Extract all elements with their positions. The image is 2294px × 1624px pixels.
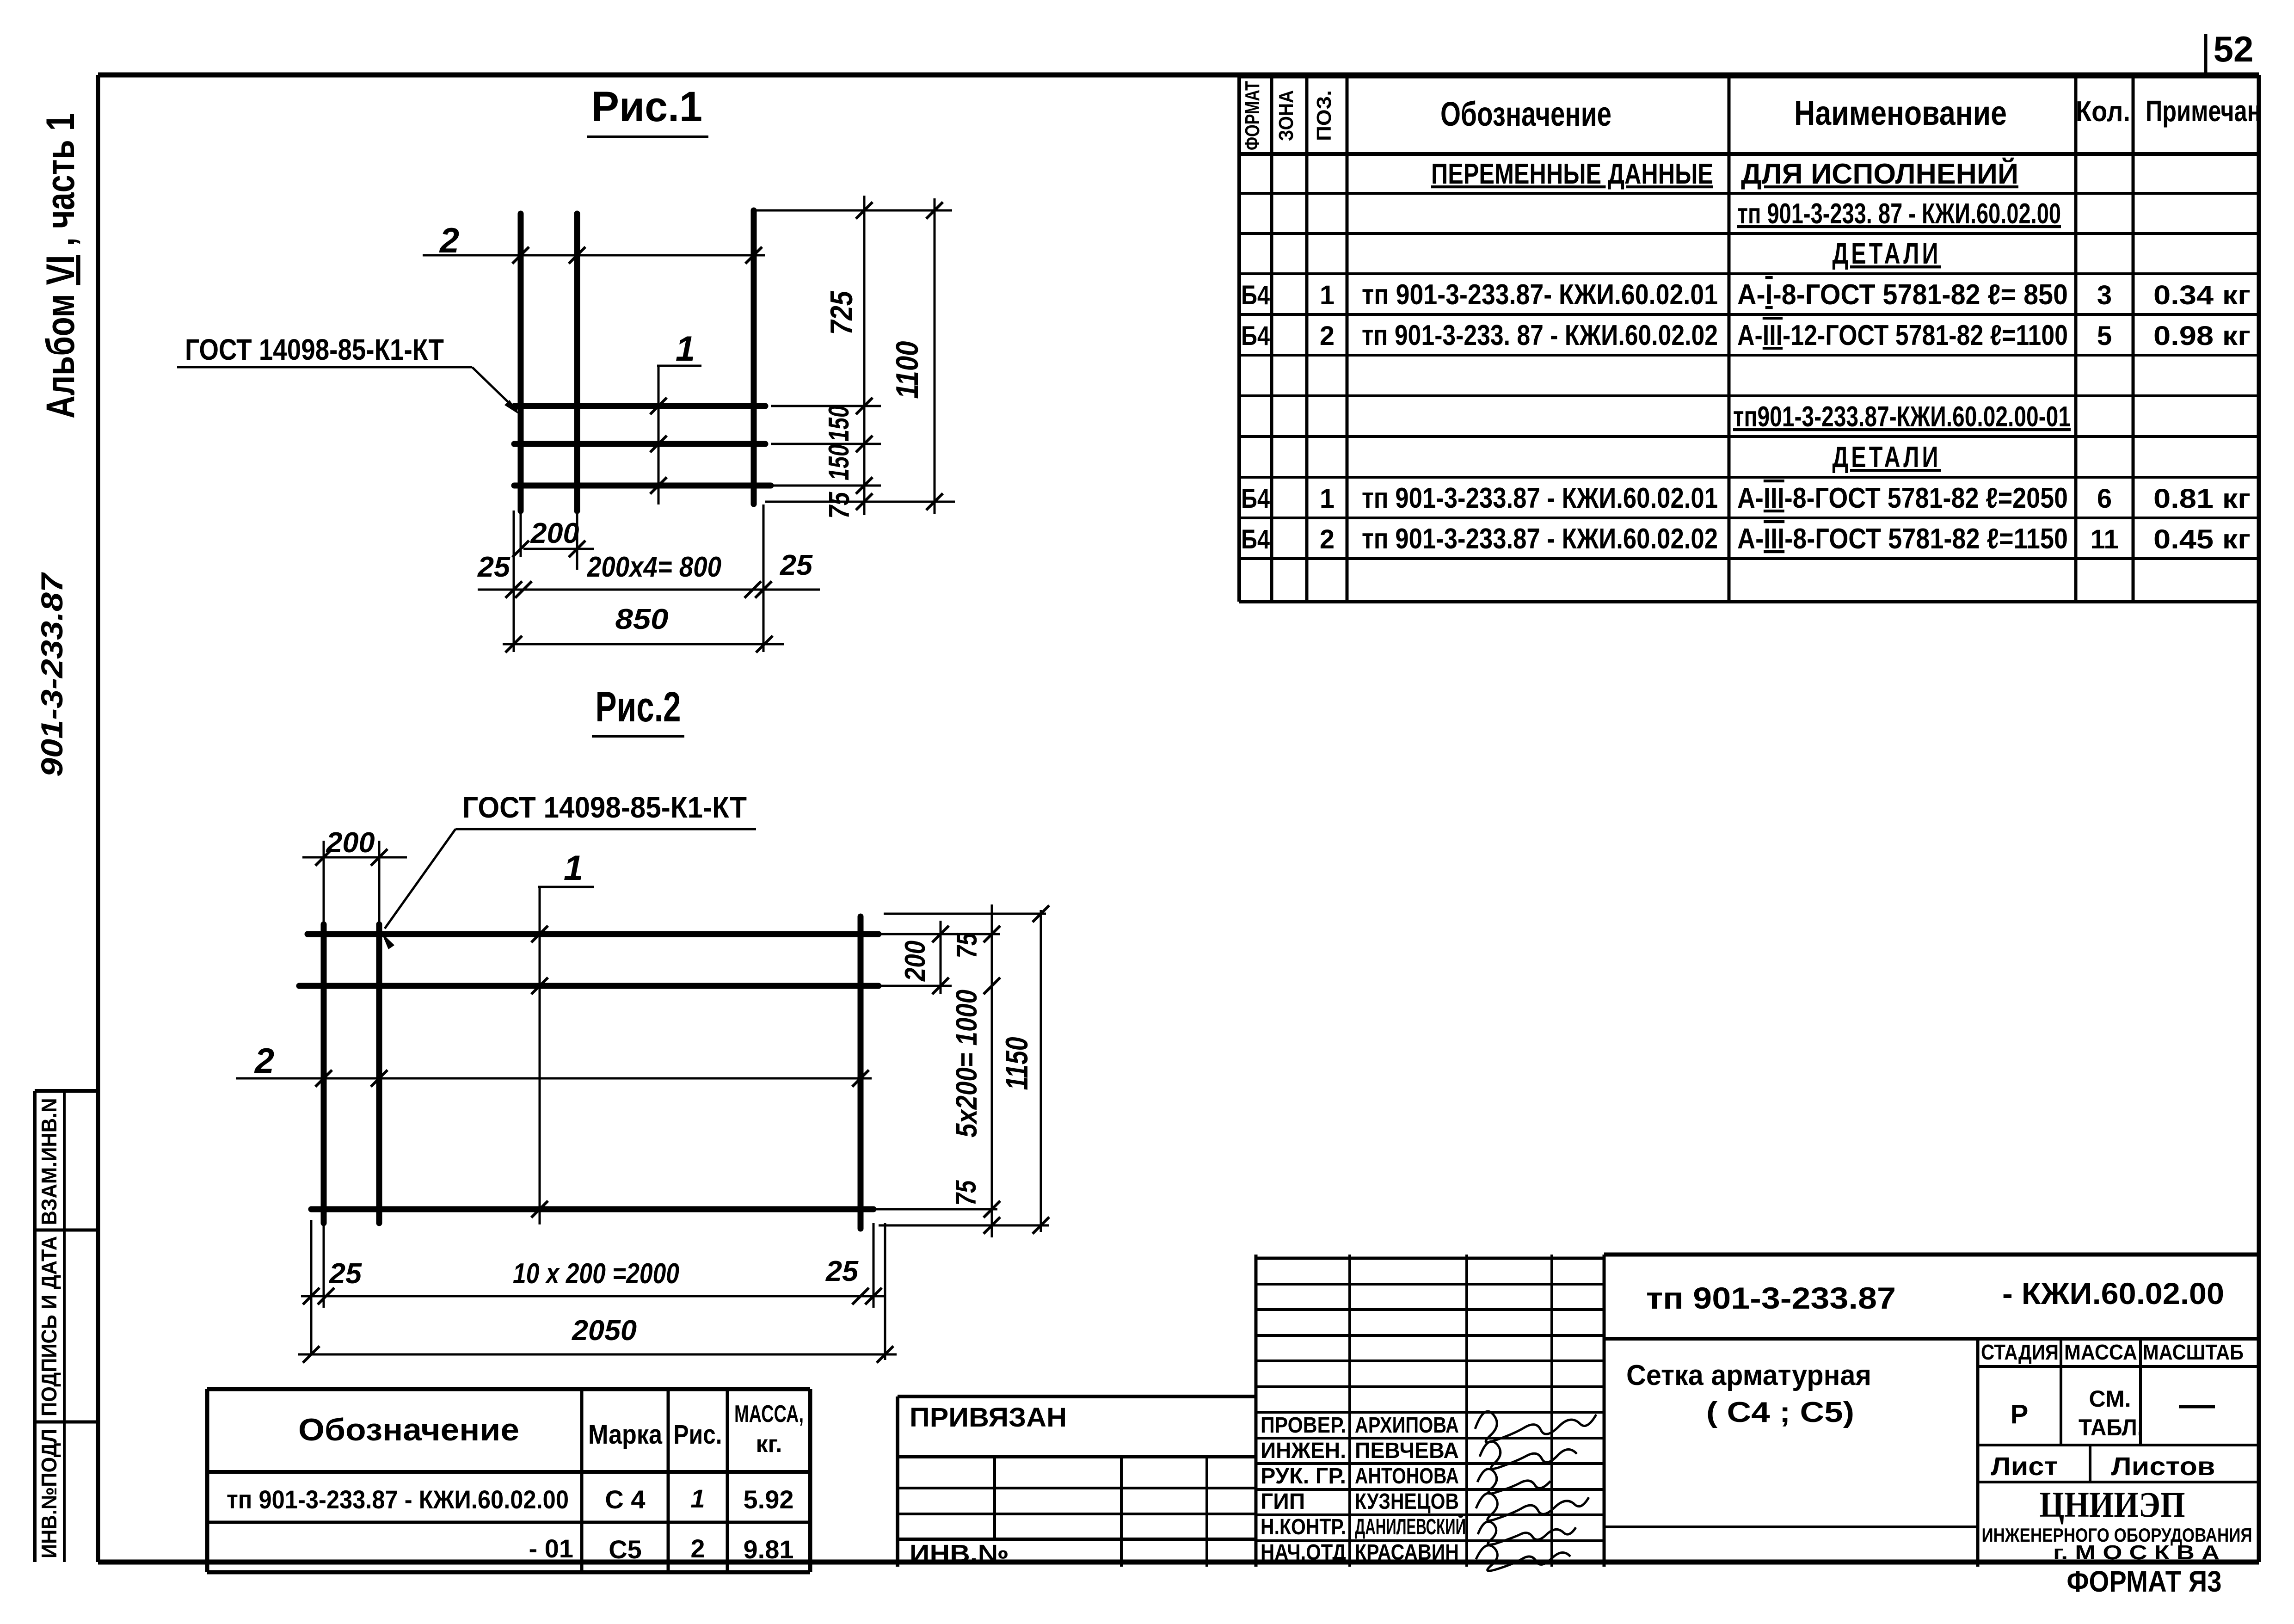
svg-text:Б4: Б4	[1241, 280, 1270, 310]
svg-text:С5: С5	[609, 1535, 642, 1564]
svg-text:- 01: - 01	[529, 1534, 574, 1563]
svg-text:200: 200	[530, 517, 579, 549]
svg-text:5.92: 5.92	[744, 1485, 794, 1514]
svg-text:25: 25	[780, 549, 813, 581]
svg-text:А-I-8-ГОСТ 5781-82 ℓ= 850: А-I-8-ГОСТ 5781-82 ℓ= 850	[1737, 279, 2068, 311]
svg-text:Рис.2: Рис.2	[596, 683, 681, 731]
svg-text:ИНВ.№: ИНВ.№	[910, 1540, 1009, 1568]
svg-text:ИНВ.№ПОДЛ: ИНВ.№ПОДЛ	[37, 1429, 61, 1558]
svg-text:АРХИПОВА: АРХИПОВА	[1355, 1413, 1459, 1438]
svg-text:тп 901-3-233.87: тп 901-3-233.87	[1646, 1281, 1896, 1315]
svg-text:Кол.: Кол.	[2076, 96, 2130, 128]
svg-text:Сетка арматурная: Сетка арматурная	[1626, 1359, 1871, 1391]
svg-text:9.81: 9.81	[744, 1535, 794, 1564]
svg-text:ЦНИИЭП: ЦНИИЭП	[2040, 1484, 2185, 1525]
svg-text:ПОЗ.: ПОЗ.	[1313, 90, 1335, 141]
svg-text:тп 901-3-233.87 - КЖИ.60.02.: тп 901-3-233.87 - КЖИ.60.02.00	[227, 1485, 569, 1514]
svg-text:тп 901-3-233. 87 - КЖИ.60.02.0: тп 901-3-233. 87 - КЖИ.60.02.02	[1362, 320, 1718, 351]
svg-text:75: 75	[824, 492, 855, 519]
svg-text:тп 901-3-233. 87 - КЖИ.60.02.0: тп 901-3-233. 87 - КЖИ.60.02.00	[1737, 198, 2061, 230]
svg-text:5: 5	[2097, 321, 2112, 351]
svg-text:ПРИВЯЗАН: ПРИВЯЗАН	[910, 1403, 1067, 1433]
svg-text:ДАНИЛЕВСКИЙ: ДАНИЛЕВСКИЙ	[1355, 1514, 1466, 1539]
svg-text:ПРОВЕР.: ПРОВЕР.	[1261, 1413, 1346, 1438]
svg-text:ФОРМАТ Я3: ФОРМАТ Я3	[2067, 1565, 2222, 1598]
svg-text:2: 2	[690, 1534, 705, 1563]
svg-text:Обозначение: Обозначение	[1440, 95, 1611, 133]
svg-text:А-III-12-ГОСТ 5781-82 ℓ=1100: А-III-12-ГОСТ 5781-82 ℓ=1100	[1737, 320, 2068, 351]
svg-text:1: 1	[1320, 484, 1335, 514]
svg-text:Листов: Листов	[2111, 1452, 2215, 1481]
svg-text:Рис.: Рис.	[674, 1420, 722, 1450]
svg-text:ПЕРЕМЕННЫЕ ДАННЫЕ: ПЕРЕМЕННЫЕ ДАННЫЕ	[1431, 158, 1713, 190]
svg-text:Обозначение: Обозначение	[298, 1412, 519, 1447]
svg-text:1: 1	[690, 1484, 705, 1513]
svg-text:Рис.1: Рис.1	[591, 83, 702, 130]
svg-text:ПОДПИСЬ И ДАТА: ПОДПИСЬ И ДАТА	[37, 1236, 61, 1416]
svg-text:6: 6	[2097, 484, 2112, 514]
svg-text:С 4: С 4	[605, 1485, 645, 1514]
svg-text:Наименование: Наименование	[1794, 94, 2007, 132]
svg-text:ТАБЛ.: ТАБЛ.	[2079, 1415, 2143, 1440]
svg-text:ФОРМАТ: ФОРМАТ	[1241, 81, 1264, 150]
svg-text:2: 2	[1320, 321, 1335, 351]
svg-text:200: 200	[899, 941, 931, 982]
svg-text:1150: 1150	[999, 1037, 1034, 1090]
svg-text:АНТОНОВА: АНТОНОВА	[1355, 1464, 1459, 1489]
svg-text:1100: 1100	[890, 341, 925, 399]
svg-text:Б4: Б4	[1241, 484, 1270, 514]
svg-text:Лист: Лист	[1991, 1452, 2058, 1481]
svg-text:тп 901-3-233.87- КЖИ.60.02.01: тп 901-3-233.87- КЖИ.60.02.01	[1362, 279, 1718, 311]
svg-text:1: 1	[676, 329, 695, 369]
svg-text:Б4: Б4	[1241, 524, 1270, 554]
svg-text:КУЗНЕЦОВ: КУЗНЕЦОВ	[1355, 1489, 1459, 1514]
svg-text:200: 200	[326, 827, 375, 859]
svg-text:Примечан: Примечан	[2146, 94, 2261, 128]
svg-text:МАССА,: МАССА,	[734, 1401, 804, 1427]
svg-text:2: 2	[1320, 524, 1335, 554]
svg-text:тп901-3-233.87-КЖИ.60.02.00-01: тп901-3-233.87-КЖИ.60.02.00-01	[1733, 401, 2071, 433]
svg-text:5x200= 1000: 5x200= 1000	[950, 990, 983, 1138]
svg-text:75: 75	[950, 1180, 982, 1206]
svg-text:10 x 200 =2000: 10 x 200 =2000	[513, 1258, 679, 1290]
svg-text:Р: Р	[2011, 1399, 2029, 1429]
svg-text:1: 1	[564, 849, 583, 888]
svg-text:ПЕВЧЕВА: ПЕВЧЕВА	[1355, 1439, 1459, 1463]
svg-text:11: 11	[2090, 524, 2118, 554]
svg-text:901-3-233.87: 901-3-233.87	[35, 572, 69, 777]
svg-text:0.34 кг: 0.34 кг	[2153, 280, 2251, 310]
svg-text:850: 850	[615, 603, 669, 635]
svg-text:МАССА: МАССА	[2064, 1340, 2137, 1364]
svg-text:ДЕТАЛИ: ДЕТАЛИ	[1833, 440, 1941, 474]
svg-text:ГОСТ 14098-85-К1-КТ: ГОСТ 14098-85-К1-КТ	[185, 333, 444, 366]
svg-text:25: 25	[329, 1258, 363, 1290]
svg-text:А-III-8-ГОСТ 5781-82 ℓ=2050: А-III-8-ГОСТ 5781-82 ℓ=2050	[1737, 482, 2068, 514]
svg-text:Н.КОНТР.: Н.КОНТР.	[1261, 1515, 1346, 1539]
svg-text:0.45 кг: 0.45 кг	[2153, 524, 2251, 554]
svg-text:тп 901-3-233.87 - КЖИ.60.02.01: тп 901-3-233.87 - КЖИ.60.02.01	[1362, 482, 1718, 514]
svg-text:А-III-8-ГОСТ 5781-82 ℓ=1150: А-III-8-ГОСТ 5781-82 ℓ=1150	[1737, 523, 2068, 555]
svg-text:РУК. ГР.: РУК. ГР.	[1261, 1464, 1346, 1489]
svg-text:52: 52	[2214, 29, 2254, 69]
svg-text:кг.: кг.	[756, 1431, 782, 1458]
svg-text:1: 1	[1320, 280, 1335, 310]
svg-text:( С4 ; С5): ( С4 ; С5)	[1706, 1396, 1854, 1428]
svg-text:ЗОНА: ЗОНА	[1275, 90, 1298, 141]
svg-text:ДЕТАЛИ: ДЕТАЛИ	[1833, 237, 1941, 270]
svg-text:150: 150	[823, 444, 855, 480]
svg-text:ГИП: ГИП	[1261, 1489, 1305, 1514]
svg-text:725: 725	[824, 291, 859, 335]
svg-text:ГОСТ 14098-85-К1-КТ: ГОСТ 14098-85-К1-КТ	[462, 791, 747, 824]
svg-text:Б4: Б4	[1241, 321, 1270, 351]
svg-text:СМ.: СМ.	[2089, 1386, 2131, 1412]
svg-text:75: 75	[951, 932, 983, 958]
svg-text:МАСШТАБ: МАСШТАБ	[2143, 1340, 2244, 1364]
svg-text:тп 901-3-233.87 - КЖИ.60.02.02: тп 901-3-233.87 - КЖИ.60.02.02	[1362, 523, 1718, 555]
svg-text:КРАСАВИН: КРАСАВИН	[1355, 1540, 1459, 1565]
svg-text:2050: 2050	[572, 1315, 637, 1347]
svg-text:25: 25	[477, 551, 511, 583]
svg-text:ВЗАМ.ИНВ.N: ВЗАМ.ИНВ.N	[37, 1098, 61, 1225]
svg-text:2: 2	[254, 1041, 274, 1081]
svg-text:25: 25	[825, 1255, 859, 1287]
svg-text:НАЧ.ОТД: НАЧ.ОТД	[1261, 1540, 1346, 1565]
svg-text:г. М О С К В А: г. М О С К В А	[2053, 1541, 2220, 1564]
svg-text:3: 3	[2097, 280, 2112, 310]
svg-text:0.81 кг: 0.81 кг	[2153, 484, 2251, 514]
svg-text:- КЖИ.60.02.00: - КЖИ.60.02.00	[2002, 1276, 2224, 1310]
svg-text:200x4= 800: 200x4= 800	[587, 551, 721, 583]
svg-text:0.98 кг: 0.98 кг	[2153, 321, 2251, 351]
svg-text:Альбом VI , часть 1: Альбом VI , часть 1	[38, 113, 83, 418]
svg-text:СТАДИЯ: СТАДИЯ	[1981, 1340, 2059, 1364]
svg-text:150: 150	[823, 406, 855, 442]
svg-text:ИНЖЕН.: ИНЖЕН.	[1261, 1439, 1346, 1463]
svg-text:Марка: Марка	[588, 1420, 663, 1450]
svg-text:ДЛЯ ИСПОЛНЕНИЙ: ДЛЯ ИСПОЛНЕНИЙ	[1741, 158, 2018, 190]
